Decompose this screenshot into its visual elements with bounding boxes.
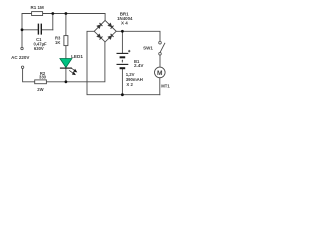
svg-text:X 2: X 2 bbox=[126, 82, 133, 87]
svg-text:2.4V: 2.4V bbox=[134, 63, 144, 68]
svg-text:630V: 630V bbox=[34, 46, 44, 51]
svg-text:MT1: MT1 bbox=[161, 84, 170, 89]
svg-text:SW1: SW1 bbox=[143, 46, 153, 51]
svg-text:AC 220V: AC 220V bbox=[11, 55, 29, 60]
svg-text:2W: 2W bbox=[37, 87, 43, 92]
svg-text:M: M bbox=[157, 70, 163, 77]
svg-text:1K: 1K bbox=[55, 40, 60, 45]
svg-text:R1 1M: R1 1M bbox=[30, 5, 44, 10]
svg-text:X 4: X 4 bbox=[121, 21, 128, 26]
svg-text:LED1: LED1 bbox=[71, 54, 83, 59]
svg-text:330: 330 bbox=[39, 74, 47, 79]
